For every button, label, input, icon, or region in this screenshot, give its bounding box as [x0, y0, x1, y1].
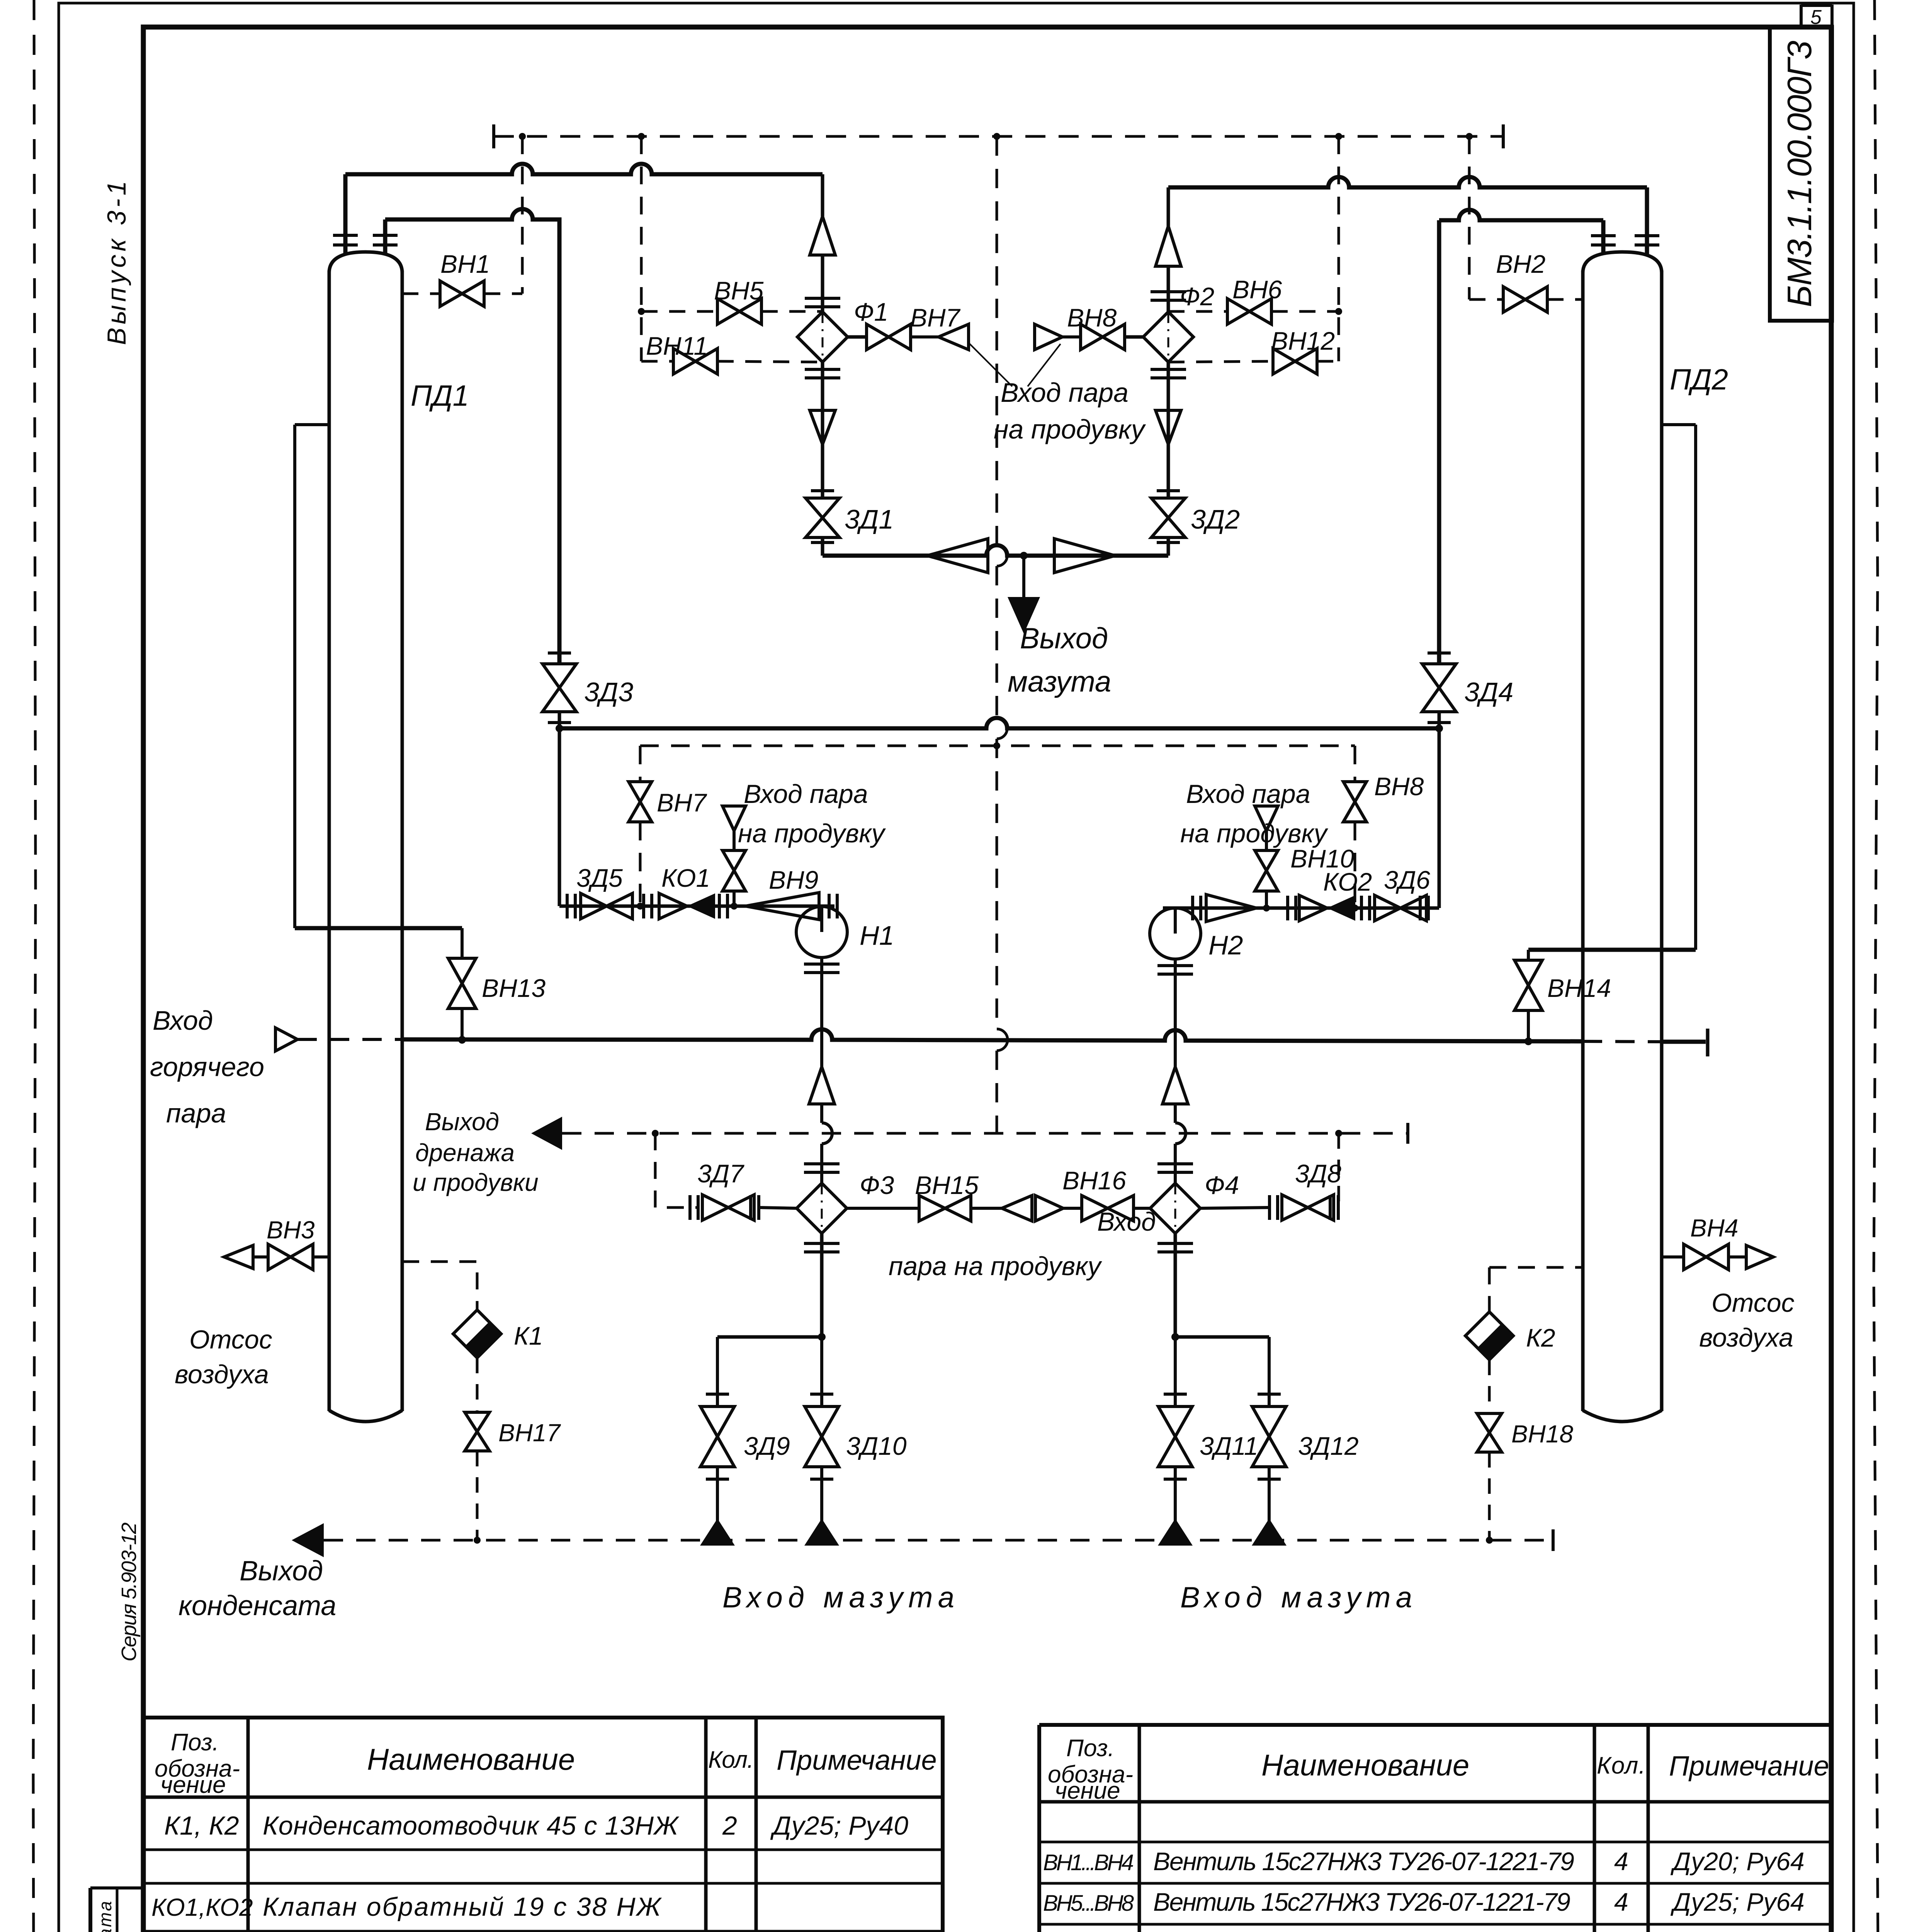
PD2 label	[1670, 363, 1728, 396]
steam inlet label right pumps	[1180, 779, 1329, 848]
left table header	[155, 1729, 937, 1798]
check valve KO2	[1299, 867, 1372, 921]
svg-text:Отсос: Отсос	[1711, 1288, 1795, 1318]
gate valve ZD9	[700, 1337, 790, 1521]
fuel inlet arrow ZD9	[700, 1519, 735, 1546]
svg-text:ВН2: ВН2	[1496, 250, 1545, 278]
air suction valve VN3	[175, 1216, 329, 1389]
svg-text:ВН8: ВН8	[1374, 772, 1424, 801]
svg-text:дренажа: дренажа	[415, 1139, 515, 1167]
svg-text:мазута: мазута	[1008, 665, 1111, 698]
svg-text:3Д1: 3Д1	[845, 504, 894, 534]
pipe PD1 top to F1 riser	[345, 164, 823, 174]
steam inlet label left pumps	[738, 779, 886, 848]
paper edge dashed right	[1874, 0, 1878, 1932]
valve VN10 with inlet triangle	[1255, 806, 1354, 906]
valve VN15	[847, 1171, 1032, 1221]
PD2 riser right with flange ticks	[1635, 187, 1659, 255]
sheet number box 5	[1801, 5, 1832, 29]
svg-text:Конденсатоотводчик 45 с 13НЖ: Конденсатоотводчик 45 с 13НЖ	[263, 1811, 680, 1840]
gate valve ZD11	[1158, 1337, 1258, 1521]
right table row VN5-VN8	[1043, 1888, 1805, 1916]
right table row VN1-VN4	[1043, 1847, 1805, 1876]
vessel PD1 heater	[329, 252, 402, 1422]
hot steam main line	[297, 1029, 1708, 1056]
svg-text:3Д4: 3Д4	[1464, 677, 1513, 707]
valve VN9 with inlet triangle	[722, 806, 818, 906]
svg-text:3Д8: 3Д8	[1295, 1159, 1341, 1188]
svg-text:ПД2: ПД2	[1670, 363, 1728, 396]
gate valve ZD1	[806, 491, 894, 543]
svg-text:горячего: горячего	[150, 1052, 264, 1082]
svg-text:ВН1...ВН4: ВН1...ВН4	[1043, 1850, 1134, 1875]
gate valve ZD6	[1375, 866, 1430, 921]
svg-text:К1: К1	[514, 1321, 543, 1350]
svg-text:Вентиль 15с27НЖ3 ТУ26-07-1221-: Вентиль 15с27НЖ3 ТУ26-07-1221-79	[1153, 1888, 1570, 1916]
PD2 riser left with flange ticks	[1591, 220, 1616, 255]
PD1 riser right with flange ticks	[373, 219, 398, 255]
valve VN17	[465, 1358, 561, 1540]
filter F3	[797, 1171, 894, 1233]
pump purge dashed header	[640, 742, 1355, 906]
svg-text:Вход пара: Вход пара	[1186, 779, 1310, 809]
svg-text:ВН13: ВН13	[482, 974, 546, 1002]
steam inlet callout top	[968, 342, 1146, 444]
pump H2 suction line	[1163, 896, 1439, 920]
svg-text:ВН14: ВН14	[1547, 974, 1611, 1002]
svg-text:КО1: КО1	[661, 864, 710, 892]
svg-text:4: 4	[1614, 1847, 1628, 1876]
paper edge dashed left	[33, 0, 36, 1932]
pipe PD1 right riser to ZD3	[385, 209, 559, 664]
svg-text:воздуха: воздуха	[1699, 1323, 1793, 1352]
svg-text:Вход пара: Вход пара	[1001, 378, 1129, 408]
PD1 label	[411, 379, 469, 412]
valve VN13 branch	[295, 928, 546, 1040]
left table row KO1KO2	[151, 1892, 662, 1922]
F3 outlet to fuel manifold	[717, 1233, 840, 1341]
filter F2	[1143, 282, 1214, 362]
svg-text:Подп. и дата: Подп. и дата	[95, 1901, 115, 1932]
svg-text:Вентиль 15с27НЖ3 ТУ26-07-1221-: Вентиль 15с27НЖ3 ТУ26-07-1221-79	[1153, 1847, 1574, 1876]
svg-text:ВН4: ВН4	[1690, 1214, 1739, 1242]
svg-text:4: 4	[1614, 1888, 1628, 1916]
svg-text:Клапан обратный 19 с 38 НЖ: Клапан обратный 19 с 38 НЖ	[263, 1892, 662, 1922]
filter F2 column riser	[1151, 187, 1186, 556]
svg-text:Отсос: Отсос	[189, 1325, 272, 1354]
svg-text:К2: К2	[1526, 1323, 1555, 1352]
svg-text:3Д7: 3Д7	[697, 1159, 744, 1188]
svg-text:Поз.: Поз.	[1066, 1735, 1115, 1762]
svg-text:Вход: Вход	[153, 1005, 213, 1036]
svg-text:Ду20; Ру64: Ду20; Ру64	[1670, 1847, 1805, 1876]
vessel PD2 heater	[1583, 252, 1662, 1422]
svg-text:ВН7: ВН7	[657, 788, 707, 817]
svg-text:воздуха: воздуха	[175, 1360, 269, 1389]
svg-text:Выход: Выход	[1020, 622, 1108, 655]
left table grid	[143, 1718, 943, 1932]
svg-text:Вентиль 15с27НЖ3 ТУ26-07-1221-: Вентиль 15с27НЖ3 ТУ26-07-1221-79	[1153, 1928, 1574, 1932]
svg-text:Выход: Выход	[240, 1556, 323, 1587]
svg-text:3Д9: 3Д9	[744, 1432, 790, 1460]
F2 lower flanges and flow arrow down	[1151, 369, 1186, 444]
fuel outlet arrow	[1008, 556, 1111, 698]
svg-text:Серия 5.903-12: Серия 5.903-12	[117, 1522, 141, 1662]
svg-text:К1, К2: К1, К2	[164, 1811, 239, 1840]
svg-text:ВН5: ВН5	[714, 276, 764, 305]
svg-text:Ду25; Ру64: Ду25; Ру64	[1670, 1888, 1805, 1916]
svg-text:ПД1: ПД1	[411, 379, 469, 412]
svg-text:3Д10: 3Д10	[846, 1432, 907, 1460]
svg-text:ВН11: ВН11	[646, 332, 708, 360]
valve VN5	[641, 276, 823, 324]
flow reducer to pump H1	[745, 893, 819, 920]
svg-text:ВН17: ВН17	[498, 1419, 561, 1447]
svg-text:Ф4: Ф4	[1205, 1171, 1239, 1199]
svg-text:КО2: КО2	[1323, 867, 1372, 896]
drain outlet arrow and dashed line	[413, 1108, 1408, 1196]
check valve KO1	[659, 864, 715, 919]
valve VN14 branch	[1514, 950, 1696, 1042]
valve VN8 vertical	[1343, 772, 1424, 822]
PD1 side tube	[295, 425, 329, 928]
svg-text:ВН6: ВН6	[1232, 275, 1282, 304]
valve VN8 line to F2 left	[1035, 303, 1143, 350]
valve VN2	[1469, 250, 1583, 312]
svg-text:Н2: Н2	[1208, 930, 1243, 960]
valve VN6	[1168, 275, 1339, 324]
svg-text:Наименование: Наименование	[1261, 1748, 1469, 1782]
gate valve ZD2	[1151, 491, 1240, 543]
gate valve ZD4	[1422, 653, 1513, 908]
gate valve ZD10	[805, 1337, 907, 1521]
svg-text:ВН8: ВН8	[1067, 303, 1117, 332]
right table grid	[1039, 1725, 1831, 1932]
filter F1 column riser	[805, 174, 840, 556]
F1 lower flanges and flow arrow down	[805, 369, 840, 444]
svg-text:ВН9: ВН9	[769, 866, 818, 894]
filter F4	[1150, 1171, 1239, 1233]
svg-text:Наименование: Наименование	[367, 1742, 575, 1776]
steam purge inlet label bottom	[889, 1207, 1156, 1281]
svg-text:Вход пара: Вход пара	[744, 779, 868, 809]
svg-text:10: 10	[1607, 1928, 1636, 1932]
svg-text:2: 2	[722, 1811, 737, 1840]
svg-text:Ф1: Ф1	[854, 298, 888, 326]
filter F1	[797, 298, 888, 362]
svg-text:Примечание: Примечание	[1669, 1751, 1829, 1782]
svg-text:3Д6: 3Д6	[1384, 866, 1430, 894]
svg-text:Ф2: Ф2	[1180, 282, 1214, 311]
gate valve ZD8 dashed branch	[1200, 1133, 1341, 1220]
air suction valve VN4	[1662, 1214, 1795, 1352]
svg-text:ВН15: ВН15	[915, 1171, 979, 1199]
fuel outlet collector	[823, 539, 1168, 573]
svg-text:Ф3: Ф3	[860, 1171, 894, 1199]
valve VN16	[1035, 1166, 1150, 1221]
svg-text:3Д2: 3Д2	[1191, 504, 1240, 534]
svg-text:Кол.: Кол.	[708, 1747, 754, 1773]
svg-text:3Д5: 3Д5	[576, 864, 623, 892]
left margin stamp column	[90, 1888, 143, 1932]
pump H2 riser to filter F4	[1157, 1067, 1193, 1182]
svg-text:конденсата: конденсата	[178, 1590, 336, 1621]
svg-text:ВН1: ВН1	[440, 250, 490, 278]
center dashed line	[997, 136, 1008, 1133]
svg-text:Выпуск 3-1: Выпуск 3-1	[102, 181, 131, 345]
svg-text:Ду25; Ру40: Ду25; Ру40	[770, 1811, 908, 1840]
left table row K1K2	[164, 1811, 908, 1840]
svg-text:пара на продувку: пара на продувку	[889, 1252, 1102, 1281]
valve VN1	[402, 250, 522, 306]
svg-text:Вход: Вход	[1097, 1207, 1156, 1236]
pipe F2 riser to PD2 top	[1168, 177, 1647, 187]
right table header	[1048, 1735, 1829, 1804]
svg-text:ВН7: ВН7	[910, 303, 961, 332]
PD2 side tube	[1662, 425, 1696, 950]
fuel inlet label left	[722, 1581, 954, 1614]
gate valve ZD12	[1252, 1337, 1359, 1521]
svg-text:3Д11: 3Д11	[1200, 1432, 1258, 1460]
svg-text:на продувку: на продувку	[738, 819, 886, 848]
svg-text:ВН16: ВН16	[1062, 1166, 1126, 1195]
svg-text:КО1,КО2: КО1,КО2	[151, 1893, 253, 1921]
svg-text:Н1: Н1	[860, 920, 894, 951]
pump H1	[796, 906, 894, 1067]
svg-text:БМ3.1.1.00.000Г3: БМ3.1.1.00.000Г3	[1780, 41, 1819, 307]
svg-text:Вход мазута: Вход мазута	[1180, 1581, 1412, 1614]
gate valve ZD5	[576, 864, 632, 919]
svg-text:пара: пара	[166, 1098, 226, 1128]
svg-text:Вход мазута: Вход мазута	[722, 1581, 954, 1614]
svg-text:ВН3: ВН3	[267, 1216, 315, 1244]
dashed drop to VN6/VN12	[1335, 136, 1342, 361]
pipe ZD4 to PD2 left riser	[1439, 210, 1603, 664]
svg-text:3Д12: 3Д12	[1298, 1432, 1359, 1460]
cross line ZD3-ZD4	[556, 718, 1443, 732]
right table row VN9-VN18	[1042, 1928, 1805, 1932]
dashed drop to VN2	[1468, 136, 1471, 299]
document stamp box rotated	[1770, 27, 1832, 321]
svg-text:ВН5...ВН8: ВН5...ВН8	[1043, 1891, 1134, 1916]
dashed drop to VN5/VN11	[638, 136, 645, 361]
gate valve ZD7 dashed branch	[655, 1133, 797, 1220]
margin note seriya 5.903-12	[117, 1522, 141, 1662]
condensate trap K1 branch	[402, 1262, 543, 1358]
valve VN7 line from F1 right	[848, 303, 969, 350]
margin note vypusk 3-1	[102, 181, 131, 345]
svg-text:чение: чение	[1055, 1777, 1120, 1804]
svg-text:Поз.: Поз.	[171, 1729, 219, 1756]
PD1 riser left with flange ticks	[333, 174, 358, 255]
svg-text:3Д3: 3Д3	[584, 677, 633, 707]
flow reducer to pump H2	[1206, 895, 1256, 922]
valve VN12	[1168, 327, 1339, 374]
fuel inlet arrow ZD11	[1158, 1519, 1193, 1546]
pump H2	[1150, 908, 1243, 1067]
svg-text:ВН12: ВН12	[1271, 327, 1335, 355]
steam purge dashed header	[494, 124, 1503, 148]
svg-text:и продувки: и продувки	[413, 1168, 539, 1196]
valve VN7 vertical	[629, 782, 707, 822]
pump H1 suction line	[559, 894, 837, 918]
svg-text:чение: чение	[160, 1772, 226, 1798]
svg-text:на продувку: на продувку	[994, 414, 1146, 444]
gate valve ZD3	[542, 653, 633, 906]
condensate outlet line	[178, 1523, 1553, 1621]
svg-text:Выход: Выход	[425, 1108, 499, 1136]
hot steam inlet arrow	[150, 1005, 297, 1128]
fuel inlet arrow ZD10	[804, 1519, 839, 1546]
F4 outlet to fuel manifold	[1157, 1233, 1269, 1341]
svg-text:на продувку: на продувку	[1180, 819, 1329, 848]
valve VN11	[641, 332, 823, 374]
condensate trap K2 branch	[1465, 1267, 1583, 1360]
svg-text:Примечание: Примечание	[777, 1745, 937, 1776]
fuel inlet arrow ZD12	[1252, 1519, 1287, 1546]
pump H1 riser to filter F3	[804, 1067, 840, 1182]
svg-text:Ду32; Ру64: Ду32; Ру64	[1670, 1928, 1805, 1932]
svg-text:ВН18: ВН18	[1511, 1420, 1574, 1448]
valve VN18	[1477, 1360, 1574, 1540]
dashed drop to VN1	[521, 136, 524, 294]
fuel inlet label right	[1180, 1581, 1412, 1614]
svg-text:Кол.: Кол.	[1597, 1752, 1645, 1779]
